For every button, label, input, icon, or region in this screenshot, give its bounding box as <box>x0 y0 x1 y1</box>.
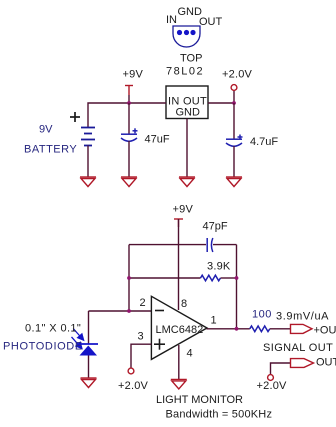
op-amp minus sign <box>155 310 164 312</box>
wire junction to 47uF <box>128 103 130 134</box>
svg-text:+2.0V: +2.0V <box>118 380 149 392</box>
ground (4.7uF) <box>226 177 242 187</box>
node junction output/feedback <box>235 327 239 331</box>
op-amp plus sign <box>154 339 165 350</box>
wire +2.0V stub <box>233 91 235 103</box>
package drawing 78L02 TO-92 top view <box>173 26 200 47</box>
ground (battery) <box>80 177 96 187</box>
svg-text:100: 100 <box>252 309 272 321</box>
battery plus sign <box>70 112 80 122</box>
node +2.0V open terminal (signal out) <box>268 375 274 381</box>
power marker +9V (op-amp) <box>174 219 183 227</box>
svg-text:1: 1 <box>211 315 217 327</box>
regulator U1 78L02 box <box>166 86 208 119</box>
wire feedback left vertical <box>128 245 130 311</box>
svg-text:IN: IN <box>166 14 177 26</box>
node +2.0V open terminal <box>231 85 237 91</box>
photodiode light arrows <box>72 329 84 349</box>
svg-text:LMC6482: LMC6482 <box>156 324 204 336</box>
connector flag OUT <box>291 359 314 368</box>
wire 4.7uF to ground <box>233 146 235 177</box>
wire +9V to op-amp pin 8 <box>178 219 180 310</box>
power marker +9V (top) <box>125 86 133 96</box>
wire photodiode to ground <box>88 356 90 379</box>
wire inverting input row <box>89 310 152 312</box>
svg-text:47pF: 47pF <box>203 221 228 233</box>
node junction feedback left at 3.9K <box>127 276 131 280</box>
node junction at 47uF tap <box>127 101 131 105</box>
ground (regulator) <box>179 177 195 187</box>
wire feedback right vertical <box>236 245 238 329</box>
op-amp U2 LMC6482 <box>151 296 207 359</box>
ground (photodiode) <box>81 378 97 388</box>
svg-text:+2.0V: +2.0V <box>222 69 253 81</box>
svg-text:OUT: OUT <box>199 16 223 28</box>
photodiode D1 <box>79 344 99 356</box>
wire op-amp pin 4 to ground <box>178 345 180 379</box>
svg-text:2: 2 <box>140 297 146 309</box>
wire 3.9K row left <box>129 277 201 279</box>
svg-text:GND: GND <box>176 107 201 119</box>
wire battery top to regulator input <box>88 103 166 128</box>
connector flag +OUT <box>291 324 313 333</box>
svg-text:3.9K: 3.9K <box>207 261 231 273</box>
svg-text:3.9mV/uA: 3.9mV/uA <box>276 311 329 323</box>
svg-text:0.1" X 0.1": 0.1" X 0.1" <box>25 323 81 335</box>
svg-text:4.7uF: 4.7uF <box>250 136 278 148</box>
svg-text:8: 8 <box>181 298 187 310</box>
wire +2.0V to output flag 2 <box>271 363 291 374</box>
svg-text:Bandwidth = 500KHz: Bandwidth = 500KHz <box>166 409 273 421</box>
wire regulator GND pin <box>186 119 188 178</box>
capacitor C2 4.7uF <box>226 135 243 147</box>
ground (op-amp) <box>171 379 187 389</box>
svg-text:BATTERY: BATTERY <box>24 144 77 156</box>
svg-text:3: 3 <box>138 331 144 343</box>
svg-text:+2.0V: +2.0V <box>257 380 288 392</box>
wire resistor to output flag <box>270 328 291 330</box>
wire non-inverting input <box>131 344 151 367</box>
svg-text:4: 4 <box>187 348 193 360</box>
ground (47uF) <box>121 177 137 187</box>
wire feedback top row (47pF row) <box>129 244 237 246</box>
svg-text:PHOTODIODE: PHOTODIODE <box>3 341 83 353</box>
svg-text:9V: 9V <box>39 124 53 136</box>
svg-text:78L02: 78L02 <box>166 66 204 78</box>
svg-text:TOP: TOP <box>180 53 202 65</box>
svg-text:SIGNAL OUT: SIGNAL OUT <box>263 342 333 354</box>
node +2.0V open terminal (op-amp) <box>128 368 134 374</box>
resistor R1 3.9K <box>201 275 221 281</box>
wire 47uF to ground <box>128 141 130 177</box>
wire op-amp output <box>207 328 250 330</box>
svg-text:LIGHT MONITOR: LIGHT MONITOR <box>156 394 243 406</box>
node junction at 4.7uF tap <box>232 101 236 105</box>
battery 9V <box>81 128 95 146</box>
wire regulator output to +2.0V node <box>208 102 234 104</box>
svg-text:+OUT: +OUT <box>314 325 336 337</box>
svg-text:OUT: OUT <box>316 357 336 369</box>
svg-text:+9V: +9V <box>123 69 144 81</box>
capacitor C1 47uF <box>121 128 138 141</box>
wire junction to 4.7uF <box>233 103 235 139</box>
node junction feedback right at 3.9K <box>235 276 239 280</box>
wire 3.9K row right <box>221 277 237 279</box>
wire battery bottom to ground <box>87 146 89 178</box>
svg-text:+9V: +9V <box>173 204 194 216</box>
svg-text:47uF: 47uF <box>145 134 170 146</box>
capacitor C3 47pF <box>207 238 213 252</box>
resistor R2 100 <box>250 326 270 332</box>
wire photodiode top <box>88 311 90 344</box>
node junction inverting input <box>127 309 131 313</box>
